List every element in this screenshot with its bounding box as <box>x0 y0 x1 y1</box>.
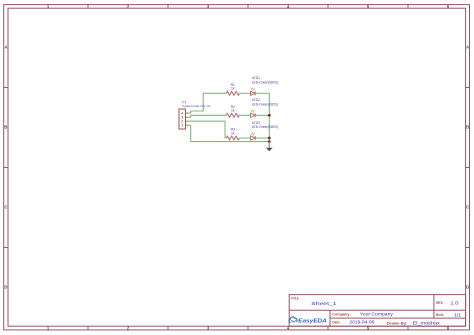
svg-text:1k: 1k <box>231 109 235 113</box>
svg-text:1/1: 1/1 <box>454 312 461 317</box>
title block <box>289 295 465 327</box>
left ticks <box>4 88 8 248</box>
resistor R1 <box>226 91 239 95</box>
EasyEDA logo cloud <box>289 317 297 323</box>
wire right vertical rail <box>268 93 270 141</box>
junction row3 rail <box>268 137 271 140</box>
frame zone letters left <box>4 45 7 290</box>
svg-text:A: A <box>4 45 7 50</box>
wire R2 to LED2 <box>240 114 251 116</box>
svg-text:B: B <box>466 125 469 130</box>
junction bottom rail <box>268 140 271 143</box>
svg-text:Drawn By:: Drawn By: <box>387 321 408 325</box>
svg-text:Sheet_1: Sheet_1 <box>311 301 337 306</box>
junction row2 rail <box>268 114 271 117</box>
svg-text:LED-Green(0603): LED-Green(0603) <box>252 80 278 84</box>
svg-text:1: 1 <box>181 124 183 128</box>
frame zone numbers bottom <box>47 326 450 331</box>
top ticks <box>88 5 408 9</box>
resistor R2 <box>226 113 239 117</box>
wire LED3 to rail <box>255 137 269 139</box>
svg-text:2019-04-06: 2019-04-06 <box>350 320 375 325</box>
LED LED2 <box>251 110 256 118</box>
resistor R3 <box>226 136 239 140</box>
wire pin3 to row2 <box>189 115 227 117</box>
svg-text:REV:: REV: <box>436 301 443 305</box>
wire LED2 to rail <box>255 114 269 116</box>
svg-text:C: C <box>4 205 7 210</box>
svg-text:Company:: Company: <box>332 312 351 316</box>
svg-text:B: B <box>4 125 7 130</box>
wire R1 to LED1 <box>240 92 251 94</box>
svg-text:D: D <box>4 285 7 290</box>
wire LED1 to right rail <box>255 92 269 94</box>
right ticks <box>466 88 470 248</box>
svg-text:LED-Green(0603): LED-Green(0603) <box>252 102 278 106</box>
bottom ticks <box>88 326 408 330</box>
svg-text:Date:: Date: <box>332 320 340 324</box>
svg-text:EasyEDA: EasyEDA <box>298 318 327 324</box>
wire pin2 to row3 <box>189 121 227 138</box>
svg-text:Your Company: Your Company <box>360 312 394 317</box>
svg-text:Sheet:: Sheet: <box>436 313 444 317</box>
wire pin4 to row1 <box>189 93 227 113</box>
svg-text:El_moshax: El_moshax <box>413 321 441 326</box>
svg-text:LED-Green(0603): LED-Green(0603) <box>252 125 278 129</box>
LED LED1 <box>251 88 256 96</box>
frame zone letters right <box>466 45 469 290</box>
svg-text:A: A <box>466 45 469 50</box>
wire R3 to LED3 <box>240 137 251 139</box>
svg-text:1k: 1k <box>231 131 235 135</box>
svg-text:D: D <box>466 285 469 290</box>
frame zone numbers top <box>47 4 450 9</box>
connector P1 <box>179 109 189 129</box>
svg-text:1k: 1k <box>231 87 235 91</box>
svg-text:TITLE:: TITLE: <box>291 296 300 300</box>
wire pin1 to ground rail <box>189 125 270 141</box>
svg-text:1.0: 1.0 <box>450 301 459 306</box>
svg-text:Header-Female 2.54_1x4: Header-Female 2.54_1x4 <box>182 104 210 108</box>
ground <box>266 142 273 152</box>
svg-text:C: C <box>466 205 469 210</box>
LED LED3 <box>251 133 256 141</box>
